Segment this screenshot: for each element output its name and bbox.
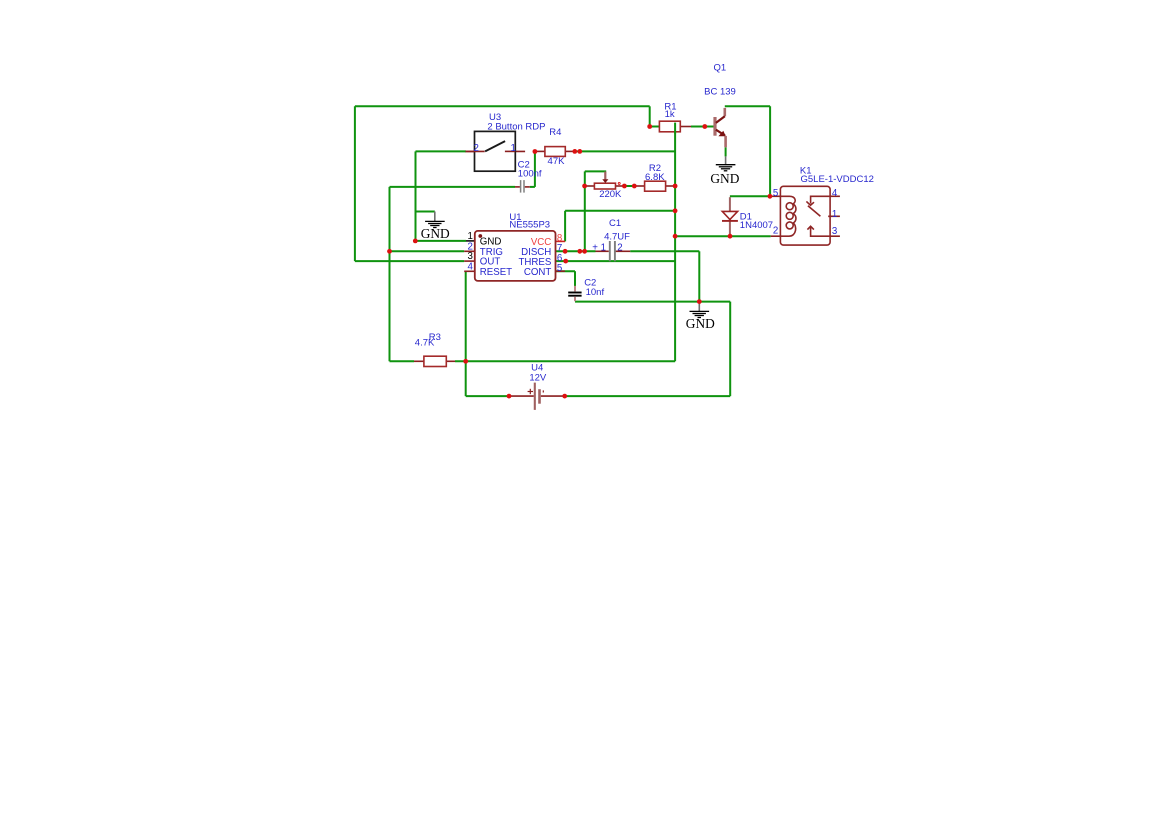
svg-text:1: 1: [832, 209, 837, 220]
svg-text:47K: 47K: [548, 156, 566, 167]
svg-text:3: 3: [468, 251, 473, 262]
svg-text:2: 2: [617, 243, 622, 254]
svg-text:CONT: CONT: [524, 267, 552, 278]
svg-text:4: 4: [468, 262, 474, 273]
svg-text:4: 4: [832, 188, 838, 199]
svg-text:2: 2: [773, 226, 778, 237]
svg-text:4.7UF: 4.7UF: [604, 231, 630, 242]
svg-text:1: 1: [511, 143, 516, 154]
svg-text:GND: GND: [686, 316, 715, 331]
svg-text:NE555P3: NE555P3: [509, 219, 550, 230]
svg-text:6.8K: 6.8K: [645, 172, 665, 183]
svg-text:220K: 220K: [599, 189, 622, 200]
svg-text:8: 8: [557, 233, 562, 244]
svg-text:BC 139: BC 139: [704, 87, 736, 98]
svg-text:R4: R4: [549, 127, 561, 138]
svg-text:5: 5: [557, 263, 562, 274]
svg-text:1: 1: [468, 231, 473, 242]
svg-text:VCC: VCC: [531, 237, 551, 248]
svg-text:2 Button RDP: 2 Button RDP: [487, 121, 545, 132]
svg-text:12V: 12V: [529, 372, 547, 383]
svg-text:2: 2: [474, 143, 479, 154]
svg-text:Q1: Q1: [714, 62, 727, 73]
svg-text:G5LE-1-VDDC12: G5LE-1-VDDC12: [801, 174, 874, 185]
svg-text:GND: GND: [421, 226, 450, 241]
svg-text:C1: C1: [609, 218, 621, 229]
svg-text:4.7K: 4.7K: [415, 337, 435, 348]
svg-text:GND: GND: [710, 171, 739, 186]
svg-text:GND: GND: [480, 237, 502, 248]
svg-text:100nf: 100nf: [518, 169, 542, 180]
svg-text:10nf: 10nf: [586, 287, 605, 298]
svg-text:1k: 1k: [665, 109, 675, 120]
svg-text:RESET: RESET: [480, 267, 512, 278]
svg-text:3: 3: [832, 226, 837, 237]
svg-text:5: 5: [773, 188, 778, 199]
svg-text:+ 1: + 1: [592, 243, 606, 254]
svg-text:1N4007: 1N4007: [740, 220, 773, 231]
